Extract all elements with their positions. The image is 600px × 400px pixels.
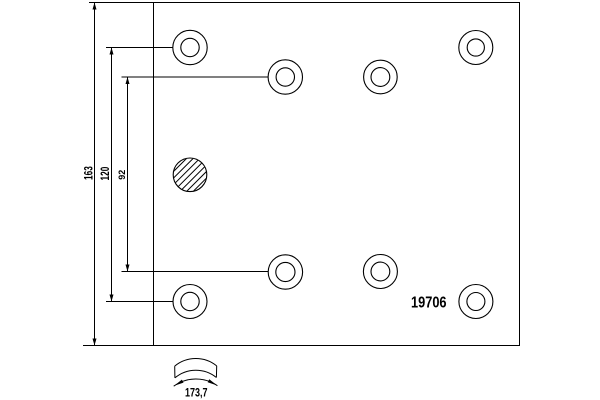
rivet hole 6 [268,255,302,289]
leader line to hole 1 [106,47,173,49]
svg-text:173,7: 173,7 [185,386,208,400]
svg-text:92: 92 [117,170,127,180]
arrowhead left of curved dimension [174,380,183,386]
dimension line 163 [93,3,97,346]
rivet hole 5 (bottom-left) [173,285,207,319]
rivet hole 7 [363,255,397,289]
leader line to hole 2 [122,76,269,78]
dimension line 120 [110,48,114,302]
lining profile symbol: inner arc [175,370,217,378]
curved dimension arc 173,7 [174,379,218,386]
arrowhead right of curved dimension [208,379,217,385]
leader line to hole 6 [122,271,269,273]
rivet hole 1 (top-left) [173,30,207,64]
backing plate outline [154,3,520,346]
rivet hole 4 (top-right) [459,31,493,65]
hatched wear-indicator circle [135,145,240,210]
top edge extension line [89,2,154,4]
lining profile symbol: right edge [215,366,217,378]
lining profile symbol: outer arc [175,359,217,367]
lining profile symbol: left edge [174,366,176,378]
rivet hole 2 [268,60,302,94]
leader line to hole 5 [106,301,173,303]
svg-text:19706: 19706 [411,294,447,312]
rivet hole 8 (bottom-right) [459,285,493,319]
dimension line 92 [126,77,130,272]
rivet hole 3 [364,60,398,94]
bottom edge extension line [83,345,154,347]
svg-text:120: 120 [100,166,113,180]
svg-text:163: 163 [83,166,96,180]
